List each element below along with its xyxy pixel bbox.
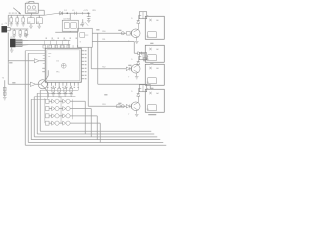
svg-text:RL: RL	[147, 109, 149, 111]
svg-text:R13: R13	[102, 104, 105, 106]
svg-text:R11: R11	[102, 39, 105, 41]
svg-text:R1 R2 R3: R1 R2 R3	[9, 13, 17, 15]
svg-text:PIC: PIC	[56, 71, 60, 73]
svg-text:VIN: VIN	[92, 10, 96, 12]
svg-text:T5: T5	[2, 77, 4, 79]
svg-text:U2: U2	[28, 22, 30, 24]
svg-text:RL: RL	[147, 59, 149, 61]
svg-text:RL: RL	[147, 82, 149, 84]
svg-text:U3: U3	[37, 22, 39, 24]
svg-text:U4 7805: U4 7805	[63, 19, 70, 21]
svg-text:J1: J1	[1, 24, 3, 26]
svg-text:RL: RL	[147, 36, 149, 38]
svg-text:K3: K3	[156, 68, 158, 70]
svg-text:K2: K2	[156, 49, 158, 51]
svg-text:+12V: +12V	[83, 10, 88, 12]
svg-text:C4: C4	[5, 23, 7, 25]
svg-text:R12: R12	[102, 66, 105, 68]
svg-text:K4: K4	[156, 93, 158, 95]
svg-text:JP2: JP2	[10, 37, 13, 39]
svg-text:K1: K1	[156, 20, 158, 22]
svg-text:R10: R10	[102, 31, 105, 33]
